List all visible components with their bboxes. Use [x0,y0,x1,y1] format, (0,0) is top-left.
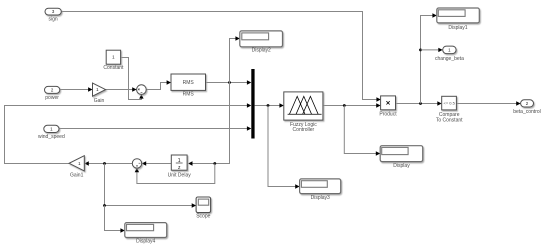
sum circle (difference) [132,159,141,168]
junction Product output [419,102,422,105]
junction RMS output [228,81,231,84]
junction on sum-to-Gain1 wire [103,162,106,165]
divide circle U1 [137,85,147,95]
svg-text:RMS: RMS [183,80,195,86]
junction FLC output [343,104,346,107]
block Display4 [125,223,167,245]
svg-text:Scope: Scope [196,213,210,219]
wire Product out to Compare To Constant [396,101,442,105]
wire FLC out to Product bottom input [323,103,381,107]
wire junction around to sum circle bottom [135,164,215,184]
junction Mux output [267,104,270,107]
wire power to Gain [60,87,93,91]
svg-text:Display3: Display3 [311,195,330,201]
block Gain1 (mirrored) [69,156,84,179]
svg-text:Unit Delay: Unit Delay [168,173,192,179]
block Gain [93,83,106,104]
block Product [379,96,397,117]
svg-text:Gain1: Gain1 [70,173,84,179]
wire Constant to divide circle bottom [121,58,144,100]
wire branch down to Display3 [268,106,300,189]
svg-text:beta_control: beta_control [513,109,541,115]
svg-text:wind_speed: wind_speed [38,134,65,140]
junction Unit Delay input [213,162,216,165]
junction change_beta branch [419,49,422,52]
block Display [380,146,423,170]
svg-text:RMS: RMS [183,91,195,97]
svg-text:Constant: Constant [103,65,124,71]
block Display3 [300,179,341,201]
wire divide circle to RMS [146,80,171,89]
wire branch down to Display4 [105,206,125,233]
wire Gain to divide circle [106,87,137,91]
block Unit Delay [168,155,192,179]
wire branch up to Display2 [230,36,240,82]
wire branch down to Scope [105,164,197,208]
wire Unit Delay out to sum circle right [142,161,172,165]
block RMS [171,74,206,97]
wire branch up to Display1 [421,13,437,103]
junction Scope branch [103,204,106,207]
wire Mux out to Fuzzy Logic Controller [255,103,284,107]
wire branch down to Display [344,106,380,156]
svg-text:<= 0.5: <= 0.5 [444,101,456,106]
svg-text:Display4: Display4 [136,238,155,244]
wire RMS to Mux input 1 [206,80,252,84]
svg-text:Controller: Controller [293,127,315,133]
block Constant [103,50,124,71]
wire Gain1 out left up to Mux input 2 [5,103,252,163]
svg-text:To Constant: To Constant [436,117,463,123]
block Compare To Constant [436,96,463,123]
wire branch to change_beta outport [421,48,443,52]
wire sign to Product top input [61,12,381,102]
svg-text:power: power [45,95,59,101]
block Fuzzy Logic Controller [284,92,323,133]
svg-text:Display1: Display1 [448,25,467,31]
svg-text:change_beta: change_beta [435,56,464,62]
inport 3 sign [45,8,61,22]
svg-text:Display: Display [393,163,410,169]
inport 2 power [45,86,60,101]
svg-text:Display2: Display2 [252,48,271,54]
block Scope [196,197,211,219]
outport 1 change_beta [435,46,464,62]
svg-text:Product: Product [379,111,397,117]
block Display1 [437,8,480,31]
svg-text:sign: sign [49,16,58,22]
outport 2 beta_control [513,100,541,115]
svg-text:Gain: Gain [94,98,105,104]
inport 1 wind_speed [38,125,65,140]
mux [251,69,254,139]
block Display2 [240,31,283,54]
wire sum circle to Gain1 [84,161,132,165]
wire branch down to Unit Delay [188,83,229,166]
wire wind_speed to Mux input 3 [59,126,251,130]
wire Compare To Constant to beta_control outport [456,101,520,105]
